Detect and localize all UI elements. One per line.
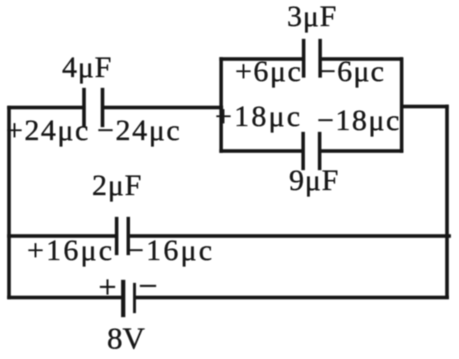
wire box top edge left segment — [220, 57, 303, 60]
svg-text:−24μc: −24μc — [97, 114, 181, 147]
capacitor C1 4uF plates — [82, 88, 104, 127]
wire box to right rail — [403, 105, 449, 108]
svg-text:+16μc: +16μc — [27, 234, 114, 267]
svg-text:2μF: 2μF — [92, 169, 142, 202]
wire middle rail left of C4 — [7, 234, 115, 237]
capacitor C4 2uF plates — [115, 217, 130, 255]
wire top-left horizontal (left rail to C1) — [7, 106, 85, 109]
wire box bottom edge right segment — [321, 149, 403, 152]
svg-text:−18μc: −18μc — [317, 104, 401, 137]
svg-text:9μF: 9μF — [289, 164, 339, 197]
capacitor C2 3uF plates — [302, 39, 322, 78]
svg-text:−6μc: −6μc — [319, 55, 385, 88]
wire box bottom edge left segment — [220, 149, 302, 152]
battery polarity minus sign — [140, 285, 156, 287]
svg-text:8V: 8V — [107, 321, 146, 356]
capacitor C3 9uF plates — [302, 132, 322, 170]
wire left vertical rail — [7, 106, 10, 299]
svg-text:3μF: 3μF — [287, 0, 337, 33]
svg-text:+6μc: +6μc — [235, 55, 302, 88]
wire right vertical rail — [445, 105, 448, 299]
wire bottom rail right of battery — [136, 296, 449, 299]
wire middle rail right of C4 — [130, 234, 451, 237]
svg-text:+18μc: +18μc — [215, 100, 302, 133]
svg-text:4μF: 4μF — [62, 51, 112, 84]
battery V1 plates — [121, 280, 136, 317]
wire box top edge right segment — [322, 57, 403, 60]
wire box right edge — [400, 57, 403, 152]
svg-text:+24μc: +24μc — [6, 114, 90, 147]
battery polarity plus sign — [100, 280, 115, 295]
wire bottom rail left of battery — [7, 296, 121, 299]
wire box left edge — [220, 57, 223, 152]
wire C1 to parallel box — [104, 106, 223, 109]
svg-text:−16μc: −16μc — [127, 234, 214, 267]
